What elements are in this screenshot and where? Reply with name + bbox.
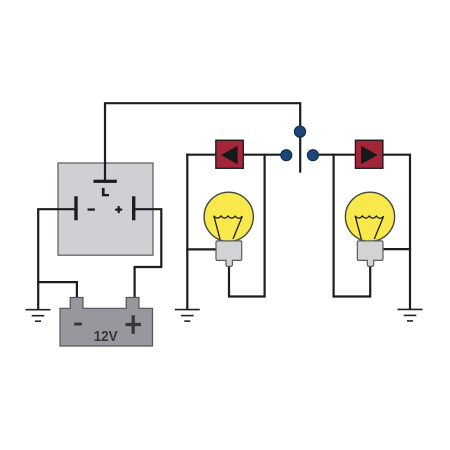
ground G3 (lamp LP2 return)	[398, 309, 423, 321]
wire switch right contact to diode D2 left lead	[313, 154, 356, 156]
switch S1 right throw contact	[307, 150, 318, 161]
wire branch to battery minus terminal	[38, 282, 77, 298]
svg-text:12V: 12V	[94, 329, 118, 345]
flasher terminal minus bar	[74, 196, 77, 220]
lamp LP1 glass bulb	[204, 192, 253, 241]
flasher terminal L bar	[94, 180, 117, 183]
wire from flasher plus terminal to battery plus terminal	[135, 209, 162, 298]
flasher relay U1 body	[58, 163, 153, 255]
flasher label L	[102, 188, 109, 196]
lamp LP2 base shell with bottom contact tab	[357, 241, 383, 267]
wire from flasher L terminal to switch top contact	[105, 103, 300, 181]
lamp LP2 glass bulb	[345, 192, 394, 241]
flasher label plus	[115, 206, 122, 213]
wire diode D1 side down to ground G2	[186, 155, 188, 309]
flasher label minus	[88, 208, 95, 210]
wire diode D1 left lead	[187, 154, 216, 156]
wire from flasher minus terminal to ground G1	[38, 209, 75, 309]
diode D1 arrow (pointing left)	[221, 146, 238, 165]
switch S1 left throw contact	[281, 150, 292, 161]
wire branch to lamp LP2 base shell	[382, 248, 410, 250]
ground G2 (lamp LP1 return)	[175, 310, 200, 322]
lamp LP2 filament	[355, 216, 384, 239]
lamp LP1 base shell with bottom contact tab	[216, 241, 242, 267]
flasher terminal plus bar	[132, 196, 135, 220]
lamp LP1 filament	[214, 216, 243, 239]
wire diode D1 right lead to switch left contact	[243, 154, 286, 156]
diode D2 package	[355, 140, 383, 168]
battery BT1 body with terminal posts	[60, 298, 153, 347]
wire branch to lamp LP1 base shell	[187, 248, 216, 250]
diode D1 package	[216, 140, 244, 168]
battery label plus	[126, 315, 141, 334]
wire from junction to lamp LP1 bottom contact	[229, 155, 265, 297]
switch S1 common node (top contact)	[294, 126, 305, 137]
wire from junction to lamp LP2 bottom contact	[334, 155, 371, 297]
battery label minus	[74, 323, 82, 326]
wire diode D2 right lead down to ground G3	[383, 155, 410, 309]
ground G1 (battery negative)	[26, 310, 51, 322]
diode D2 arrow (pointing right)	[361, 146, 378, 165]
switch S1 pole lever	[299, 133, 301, 172]
